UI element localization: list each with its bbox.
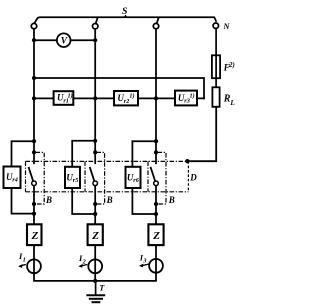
wire I2 to bus (94, 273, 96, 281)
wire phase 2 vertical lower (94, 186, 96, 225)
node lower2 (93, 202, 97, 206)
current source I3 (149, 259, 163, 273)
interlock dash-dot lines (26, 152, 189, 204)
svg-text:Z: Z (91, 230, 99, 242)
node lower1 (32, 202, 36, 206)
node ground tap (93, 279, 97, 283)
svg-text:D: D (189, 173, 197, 183)
impedance box Z1 (27, 224, 42, 245)
svg-text:1): 1) (190, 93, 195, 100)
svg-text:N: N (222, 21, 230, 31)
switch contact circle 3 (154, 181, 159, 186)
linkage line B bottom (26, 191, 189, 193)
svg-text:r4: r4 (12, 177, 18, 184)
arrowhead I3 (139, 264, 143, 268)
switch S actuator bar (35, 17, 216, 22)
node V right (93, 38, 97, 42)
terminal circle pole 2 (93, 24, 98, 29)
svg-text:2): 2) (228, 61, 235, 69)
node bus phase1 (32, 76, 36, 80)
ground T (95, 281, 97, 295)
wire feed Ur5 (72, 141, 95, 167)
impedance box Z3 (148, 224, 163, 245)
switch blade 3 (151, 168, 155, 181)
terminal circle pole 3 (153, 23, 158, 28)
linkage frame 2 left edge (84, 161, 86, 191)
node V left (32, 38, 36, 42)
svg-text:B: B (45, 195, 52, 205)
node chain phase1 (32, 96, 36, 100)
linkage frame 3 left edge (147, 161, 149, 191)
relay box Ur5 (65, 167, 80, 188)
svg-text:1: 1 (23, 256, 26, 263)
wire return Ur5 (72, 188, 95, 214)
wire phase 3 vertical lower (155, 186, 157, 225)
relay box Ur2 (114, 91, 138, 105)
voltmeter V (57, 33, 71, 47)
wire phase 3 vertical upper (155, 29, 157, 163)
S bar tick (124, 16, 126, 18)
wire phase 1 vertical upper (33, 29, 35, 163)
node return3 (154, 212, 158, 216)
trip line D dashed (187, 161, 189, 192)
arrow I2 (82, 265, 87, 266)
wire bottom bus (34, 273, 156, 281)
relay box Ur6 (126, 167, 141, 188)
current source I2 (88, 259, 102, 273)
node chain phase3 (154, 96, 158, 100)
svg-text:B: B (106, 195, 113, 205)
svg-text:r5: r5 (73, 177, 79, 184)
wire relay chain (34, 97, 204, 99)
wire return Ur6 (132, 188, 156, 214)
wire voltmeter branch (34, 39, 95, 41)
terminal circle pole 1 (31, 23, 36, 28)
linkage frame 3 right edge tap (158, 152, 167, 204)
svg-text:r6: r6 (133, 177, 139, 184)
wire feed Ur6 (132, 141, 156, 167)
linkage line B top (26, 160, 188, 162)
relay box Ur3 (175, 91, 197, 106)
svg-text:2: 2 (82, 258, 86, 265)
arrowhead I1 (18, 264, 22, 268)
wire neutral N upper (215, 28, 217, 87)
switch S blade pole 2 (96, 18, 98, 23)
svg-text:Z: Z (31, 230, 39, 242)
svg-text:1): 1) (68, 92, 73, 99)
switch S blade pole 3 (157, 18, 159, 23)
relay box Ur1 (54, 91, 74, 105)
relay box Ur4 (4, 167, 21, 189)
node D junction (185, 159, 189, 163)
node return2 (93, 212, 97, 216)
svg-text:S: S (122, 6, 128, 17)
node tap3 (154, 150, 158, 154)
node feed3 (154, 139, 158, 143)
node lower3 (154, 202, 158, 206)
svg-text:1): 1) (129, 93, 134, 100)
impedance box Z2 (88, 224, 103, 245)
svg-text:L: L (229, 99, 235, 107)
svg-text:B: B (168, 195, 175, 205)
svg-text:Z: Z (152, 230, 160, 242)
svg-text:3: 3 (142, 258, 146, 265)
node feed1 (32, 139, 36, 143)
wire Z3 to source (155, 245, 157, 273)
switch contact circle 2 (93, 181, 98, 186)
arrow I3 (143, 264, 148, 265)
linkage frame 1 right edge tap (36, 152, 45, 204)
svg-text:V: V (61, 37, 68, 47)
node return1 (32, 212, 36, 216)
svg-text:T: T (99, 283, 105, 292)
node feed2 (93, 139, 97, 143)
resistor RL (212, 87, 219, 107)
wire phase 2 vertical upper (94, 29, 96, 163)
linkage frame 1 left edge (25, 161, 27, 191)
wire N down-left (187, 107, 216, 161)
wire return Ur4 (12, 188, 35, 214)
arrowhead I2 (78, 264, 82, 268)
switch blade 1 (29, 168, 33, 181)
switch contact circle 1 (32, 181, 37, 186)
terminal circle pole N (213, 23, 218, 28)
fuse F2 (212, 55, 220, 78)
node chain phase2 (93, 96, 97, 100)
wire phase 1 vertical lower (33, 186, 35, 225)
current source I1 (27, 259, 41, 273)
linkage frame 2 right edge tap (96, 152, 104, 204)
node tap2 (93, 150, 97, 154)
arrow I1 (21, 265, 26, 266)
wire Z1 to source (33, 245, 35, 273)
wire Z2 to source (94, 245, 96, 273)
node tap1 (32, 150, 36, 154)
wire feed Ur4 (12, 141, 35, 166)
wire upper bus to Ur3 (34, 78, 204, 98)
switch blade 2 (90, 168, 94, 181)
